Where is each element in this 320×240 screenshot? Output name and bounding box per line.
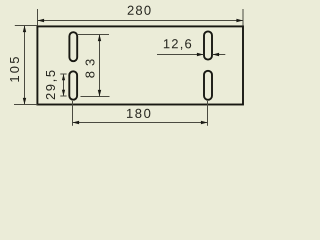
dimension 280: extension line left <box>37 9 39 26</box>
dimension 12,6: right arrowhead (points left) <box>213 53 220 56</box>
dimension 280: dimension line <box>38 20 244 22</box>
dimension 83: top arrowhead <box>98 35 101 42</box>
dimension 180: extension line left <box>72 101 74 126</box>
dimension 280: left arrowhead <box>38 19 45 22</box>
slot S2 (bottom-left) <box>69 71 77 99</box>
dimension 180: dimension line <box>73 122 208 124</box>
dimension 105: dimension line <box>24 26 26 105</box>
svg-text:8: 8 <box>82 71 97 78</box>
dimension 83: bottom arrowhead <box>98 90 101 97</box>
dimension 280: right arrowhead <box>236 19 243 22</box>
dimension 105: bottom arrowhead <box>23 98 26 105</box>
dimension 12,6: left arrowhead (points right) <box>197 53 204 56</box>
dimension 105: extension tick top <box>15 25 38 27</box>
dimension 280: extension line right <box>242 9 244 26</box>
dimension 180: left arrowhead <box>73 121 80 124</box>
dimension 83: extension line top <box>78 34 109 36</box>
dimension 180: right arrowhead <box>201 121 208 124</box>
dimension 29,5: extension tick top <box>60 73 66 75</box>
svg-text:105: 105 <box>7 54 22 82</box>
dimension 105: extension tick bottom <box>14 104 38 106</box>
slot S3 (top-right) <box>204 31 212 59</box>
dimension 12,6: dimension line right segment <box>213 54 226 56</box>
dimension 180: extension line right <box>207 101 209 126</box>
svg-text:180: 180 <box>126 106 153 121</box>
dimension 29,5: top arrowhead <box>62 74 65 80</box>
dimension 12,6: dimension line left segment <box>157 54 204 56</box>
dimension 29,5: bottom arrowhead <box>62 90 65 96</box>
svg-text:280: 280 <box>127 3 152 18</box>
dimension 83: extension line bottom <box>81 96 110 98</box>
svg-text:3: 3 <box>82 59 97 66</box>
svg-text:12,6: 12,6 <box>163 36 193 51</box>
dimension 29,5: dimension line <box>63 74 65 96</box>
slot S4 (bottom-right) <box>204 71 212 100</box>
dimension 29,5: extension tick bottom <box>60 95 66 97</box>
dimension 105: top arrowhead <box>23 26 26 33</box>
plate outline <box>37 26 243 104</box>
svg-text:29,5: 29,5 <box>43 68 58 100</box>
slot S1 (top-left) <box>69 32 77 61</box>
dimension 83: dimension line <box>99 35 101 97</box>
